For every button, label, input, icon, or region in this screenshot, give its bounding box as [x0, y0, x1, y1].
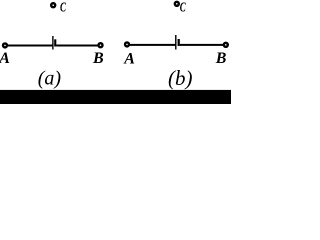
battery cell (diagram a): short negative plate — [54, 39, 56, 46]
terminal C (diagram a) — [51, 3, 55, 7]
terminal B (diagram a) — [99, 43, 103, 47]
svg-text:(b): (b) — [168, 66, 193, 90]
wire from terminal A to battery (diagram b) — [130, 44, 176, 46]
svg-text:A: A — [0, 50, 10, 67]
svg-text:A: A — [123, 51, 135, 68]
terminal B (diagram b) — [224, 43, 228, 47]
svg-text:B: B — [92, 50, 104, 67]
svg-text:C: C — [180, 1, 186, 16]
svg-text:(a): (a) — [38, 68, 62, 90]
battery cell (diagram a): long positive plate — [52, 36, 53, 50]
battery cell (diagram b): short negative plate — [178, 39, 180, 46]
wire from battery to terminal B (diagram b) — [180, 44, 224, 46]
wire from battery to terminal B (diagram a) — [56, 45, 98, 47]
wire from terminal A to battery (diagram a) — [8, 45, 53, 47]
terminal C (diagram b) — [175, 2, 179, 6]
terminal A (diagram a) — [3, 43, 7, 47]
svg-text:C: C — [60, 1, 66, 16]
svg-text:B: B — [215, 50, 227, 67]
battery cell (diagram b): long positive plate — [175, 35, 176, 50]
terminal A (diagram b) — [125, 42, 129, 46]
